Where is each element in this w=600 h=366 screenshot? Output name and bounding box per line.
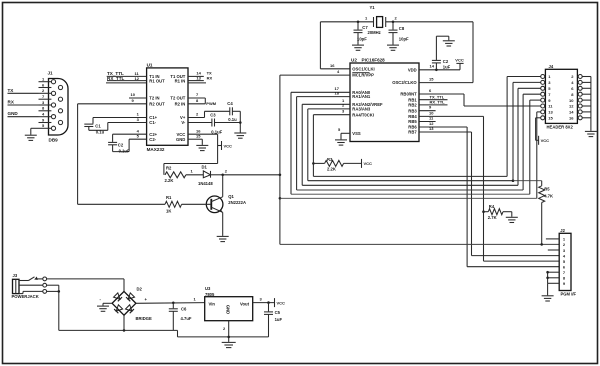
- svg-text:RA4/T0CKI: RA4/T0CKI: [352, 112, 374, 117]
- wire U3 GND pin to ground: [228, 321, 230, 342]
- svg-text:MAX232: MAX232: [147, 147, 165, 152]
- svg-text:RA1/AN1: RA1/AN1: [352, 94, 371, 99]
- wire bottom rail jog: [177, 330, 179, 337]
- ground at J4: [585, 130, 597, 132]
- svg-text:C5: C5: [275, 310, 281, 315]
- svg-text:J3: J3: [13, 273, 18, 278]
- connector J3 contacts: [43, 277, 47, 281]
- svg-text:VDD: VDD: [408, 67, 417, 72]
- svg-text:MCLR/VPP: MCLR/VPP: [352, 73, 374, 78]
- ground at Q1 emitter: [217, 235, 229, 237]
- wire crystal right to OSC2 loop: [386, 21, 473, 23]
- capacitor C5 1uF: [267, 301, 270, 304]
- svg-text:R3: R3: [327, 157, 333, 162]
- svg-text:15: 15: [548, 116, 553, 121]
- svg-text:U2: U2: [351, 58, 357, 63]
- svg-text:POWERJACK: POWERJACK: [12, 294, 39, 299]
- connector J1 DB9 shell: [49, 79, 69, 136]
- capacitor C8 10pF with wires: [392, 21, 395, 24]
- svg-text:4.7K: 4.7K: [544, 193, 553, 198]
- wires J2 pins 7 8 9 tied to ground: [548, 271, 560, 273]
- wire J2 pin 1 stub: [546, 238, 559, 240]
- svg-text:0.1uF: 0.1uF: [119, 149, 130, 154]
- ground at U3: [222, 341, 236, 343]
- svg-text:GND: GND: [8, 111, 19, 116]
- svg-text:TX: TX: [8, 88, 15, 93]
- svg-text:U3: U3: [205, 286, 211, 291]
- VCC symbol at VDD: [456, 62, 463, 64]
- ground at J1: [25, 134, 37, 136]
- svg-text:V-: V-: [181, 120, 186, 125]
- svg-text:OSC1/CLKI: OSC1/CLKI: [352, 66, 374, 71]
- wire J4 pin 15 to VCC: [536, 117, 541, 119]
- svg-text:D2: D2: [137, 287, 143, 292]
- connector J4 right pin circles and stubs: [578, 75, 582, 79]
- ground at C2: [443, 40, 455, 42]
- resistor R5 4.7K from nest to J2: [512, 179, 515, 182]
- svg-text:RB7: RB7: [408, 130, 417, 135]
- ground at U2 VSS: [335, 139, 347, 141]
- wire U1 pin 6 V- through C3: [188, 122, 212, 124]
- svg-text:1K: 1K: [166, 208, 171, 213]
- ground at J2: [542, 295, 554, 297]
- junction node VPP: [221, 174, 224, 177]
- wire J3 tip to bridge AC1: [47, 278, 124, 280]
- svg-text:Q1: Q1: [228, 194, 234, 199]
- capacitor C4: [229, 107, 231, 115]
- svg-text:10pF: 10pF: [399, 37, 409, 42]
- svg-text:16: 16: [330, 63, 335, 68]
- wire U3 Vout to VCC: [253, 302, 275, 304]
- svg-text:RX: RX: [8, 99, 15, 104]
- svg-text:TX_TTL: TX_TTL: [430, 94, 445, 99]
- IC U2 PIC16F628 body: [350, 63, 419, 142]
- wire R1 to U1 pin 9 riser: [78, 203, 165, 205]
- wire VCC loop to R2: [164, 163, 218, 165]
- ground at bridge: [97, 305, 109, 307]
- svg-text:R2 OUT: R2 OUT: [149, 101, 165, 106]
- svg-text:4.7uF: 4.7uF: [181, 316, 192, 321]
- wire U1 pin 12: [107, 80, 147, 82]
- svg-text:VCC: VCC: [541, 138, 550, 143]
- ground at R4: [506, 216, 518, 218]
- capacitor C1 with wires: [92, 118, 94, 124]
- svg-text:VCC: VCC: [455, 58, 464, 63]
- svg-text:12: 12: [569, 104, 574, 109]
- svg-text:R1: R1: [166, 195, 172, 200]
- VCC tap near U1: [218, 145, 222, 147]
- svg-text:2.2K: 2.2K: [327, 167, 336, 172]
- svg-text:VSS: VSS: [352, 131, 361, 136]
- wire below pin 13: [188, 82, 206, 84]
- svg-text:HEADER 8X2: HEADER 8X2: [547, 125, 574, 130]
- capacitor C6 4.7uF: [172, 302, 175, 305]
- svg-text:J4: J4: [549, 64, 554, 69]
- nest wire RA0 to header pin 9: [290, 92, 292, 194]
- capacitor C3: [211, 119, 213, 127]
- nest wire RA3 to header pin 3: [307, 109, 309, 181]
- svg-text:RB0/INT: RB0/INT: [400, 92, 417, 97]
- svg-text:16: 16: [569, 116, 574, 121]
- svg-text:RA3/AN3: RA3/AN3: [352, 107, 371, 112]
- connector J4 left pin circles: [541, 75, 545, 79]
- VCC symbol at R3: [361, 159, 363, 168]
- wire below pin 12: [106, 82, 147, 84]
- wire C4 to ground rail: [232, 110, 240, 112]
- svg-text:D1: D1: [202, 165, 208, 170]
- svg-text:OSC2/CLKO: OSC2/CLKO: [392, 80, 417, 85]
- svg-text:20MHz: 20MHz: [368, 30, 381, 35]
- wire Q1 emitter to ground: [222, 212, 224, 236]
- svg-text:VCC: VCC: [277, 300, 286, 305]
- nest wire MCLR down to J2 pin 2 with branch to header pin 13: [279, 75, 281, 244]
- connector J1 pins (circles): [51, 80, 55, 84]
- ground at U1 pin 15: [196, 144, 208, 146]
- wire bottom rail to bridge AC2: [59, 329, 178, 331]
- svg-text:15: 15: [429, 76, 434, 81]
- svg-text:C8: C8: [399, 26, 405, 31]
- wire crystal left: [320, 21, 373, 23]
- ground at C7: [352, 44, 364, 46]
- wire R5 to J2 pin 2 junction: [541, 203, 543, 245]
- U2 MCLR overline: [352, 72, 369, 74]
- wire junction to Q1 collector: [222, 175, 224, 197]
- svg-text:Vin: Vin: [209, 301, 216, 306]
- connector J3 power jack body: [13, 279, 20, 293]
- wire J3 third contact join: [47, 290, 59, 292]
- svg-text:10: 10: [569, 98, 574, 103]
- connector J3 arm wires: [19, 280, 29, 282]
- svg-text:VCC: VCC: [364, 161, 373, 166]
- svg-text:J1: J1: [48, 71, 54, 76]
- wire Q1 base to R1: [182, 203, 211, 205]
- nest wire RA1 to header pin 7: [296, 97, 298, 190]
- svg-text:PIC16F628: PIC16F628: [362, 58, 386, 63]
- svg-text:GND: GND: [226, 305, 231, 314]
- svg-text:C4: C4: [227, 101, 233, 106]
- wire D1 to junction: [211, 174, 223, 176]
- svg-text:DB9: DB9: [49, 138, 59, 143]
- svg-text:PGM I/F: PGM I/F: [561, 291, 577, 296]
- svg-text:C1-: C1-: [149, 120, 156, 125]
- connector J1 pin wires with pin numbers: [39, 81, 52, 83]
- VCC symbol at J4 pin 15: [538, 136, 540, 145]
- ground at C8: [387, 44, 399, 46]
- svg-text:Vout: Vout: [240, 301, 250, 306]
- svg-text:R1 OUT: R1 OUT: [149, 78, 165, 83]
- svg-text:C7: C7: [362, 25, 368, 30]
- svg-text:14: 14: [430, 64, 435, 69]
- wire R2 to D1: [186, 174, 203, 176]
- svg-text:13: 13: [196, 76, 201, 81]
- wire U1 pin 11: [107, 75, 147, 77]
- svg-text:14: 14: [569, 110, 574, 115]
- svg-text:PWM: PWM: [206, 101, 216, 106]
- svg-text:U1: U1: [147, 63, 153, 68]
- ground at C3/C4: [234, 132, 246, 134]
- wire C3 to ground junction: [215, 122, 241, 124]
- transistor Q1 2N2222A: [206, 196, 223, 213]
- connector J4 HEADER 8X2 body: [545, 69, 577, 123]
- svg-text:T2 IN: T2 IN: [149, 96, 159, 101]
- svg-text:RB5: RB5: [408, 119, 417, 124]
- diode D1 1N4148: [203, 171, 210, 178]
- svg-text:GND: GND: [176, 137, 185, 142]
- svg-text:C6: C6: [181, 307, 187, 312]
- VCC symbol at U3 output: [274, 298, 276, 307]
- wire J2 pin 3 stub: [548, 249, 559, 251]
- nest wire RA2 to header pin 5: [301, 104, 303, 185]
- svg-text:T2 OUT: T2 OUT: [170, 96, 185, 101]
- capacitor C7 10pF with wires: [357, 21, 360, 24]
- svg-text:13: 13: [548, 110, 553, 115]
- IC U1 MAX232 body: [147, 68, 188, 145]
- svg-text:R2: R2: [166, 166, 172, 171]
- svg-text:C1: C1: [95, 124, 101, 129]
- nest wire RA4 to header pin 1: [312, 115, 314, 177]
- svg-text:C2-: C2-: [149, 137, 156, 142]
- svg-text:1uF: 1uF: [275, 317, 283, 322]
- wire J1 pin5 to ground: [31, 127, 39, 129]
- svg-text:Y1: Y1: [370, 5, 376, 10]
- regulator U3 body: [205, 297, 253, 321]
- svg-text:1uF: 1uF: [443, 64, 451, 69]
- svg-text:2.2K: 2.2K: [165, 178, 174, 183]
- svg-text:2.7K: 2.7K: [488, 215, 497, 220]
- capacitor C2 with wires: [112, 134, 114, 142]
- capacitor C2 1uF at VDD: [435, 69, 438, 72]
- wire J3 sleeve down: [47, 284, 59, 286]
- bridge diodes: [114, 293, 122, 301]
- svg-text:18: 18: [335, 90, 340, 95]
- svg-text:BRIDGE: BRIDGE: [136, 316, 152, 321]
- svg-text:VCC: VCC: [224, 143, 233, 148]
- wire J4 right pins to ground: [590, 77, 592, 131]
- svg-text:R2 IN: R2 IN: [175, 101, 186, 106]
- svg-text:RX_TTL: RX_TTL: [430, 100, 446, 105]
- svg-text:0.1u: 0.1u: [96, 129, 105, 134]
- svg-text:C2: C2: [443, 59, 449, 64]
- svg-text:R4: R4: [489, 204, 495, 209]
- svg-text:C2: C2: [118, 143, 124, 148]
- resistor R3 2.2K on RA4 to VCC: [312, 162, 315, 165]
- svg-text:1N4148: 1N4148: [198, 181, 213, 186]
- svg-text:15: 15: [196, 134, 201, 139]
- svg-text:RB2: RB2: [408, 103, 417, 108]
- svg-text:RX: RX: [207, 76, 213, 81]
- svg-text:J2: J2: [560, 228, 565, 233]
- svg-text:C3: C3: [210, 112, 216, 117]
- svg-text:10: 10: [131, 92, 136, 97]
- svg-text:13: 13: [429, 126, 434, 131]
- svg-text:2N2222A: 2N2222A: [228, 200, 246, 205]
- connector J2 body: [559, 233, 571, 290]
- bridge rectifier D2 diamond: [112, 291, 136, 315]
- wire VPP node joins MCLR vertical: [223, 174, 280, 176]
- svg-text:R5: R5: [544, 187, 550, 192]
- resistor R4 2.7K from RB4 net to ground: [482, 210, 485, 213]
- svg-text:10pF: 10pF: [357, 37, 367, 42]
- svg-text:0.1u: 0.1u: [228, 117, 237, 122]
- svg-text:RB3: RB3: [408, 108, 417, 113]
- svg-text:R1 IN: R1 IN: [175, 78, 186, 83]
